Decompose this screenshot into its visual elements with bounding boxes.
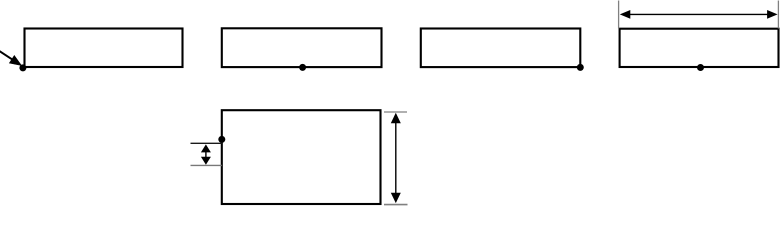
reference dot on rectangle 5 left edge [218, 136, 225, 143]
extension line bottom (large height dimension) [384, 204, 408, 206]
rectangle 3 (top third pad outline) [421, 29, 581, 68]
rectangle 2 (top second pad outline) [222, 28, 382, 67]
reference dot at rectangle 1 bottom-left corner [19, 64, 26, 71]
small vertical double-headed dimension arrow [201, 144, 211, 164]
leader arrow pointing to rectangle 1 corner [0, 51, 22, 66]
rectangle 1 (top-left pad outline) [25, 29, 183, 68]
reference dot at rectangle 3 bottom-right corner [577, 64, 584, 71]
extension line upper (small height dimension) [191, 142, 222, 144]
extension line lower (small height dimension) [191, 164, 222, 166]
extension line top (large height dimension) [384, 111, 407, 113]
large vertical double-headed dimension arrow [391, 113, 401, 203]
extension line right of width dimension [777, 1, 779, 29]
rectangle 4 (top-right pad outline) [620, 29, 779, 67]
rectangle 5 (large pad outline, bottom row) [222, 110, 381, 204]
extension line left of width dimension [618, 1, 620, 29]
reference dot at rectangle 4 bottom-center [697, 64, 704, 71]
width dimension arrow over rectangle 4 [620, 10, 778, 19]
reference dot at rectangle 2 bottom-center [299, 64, 306, 71]
